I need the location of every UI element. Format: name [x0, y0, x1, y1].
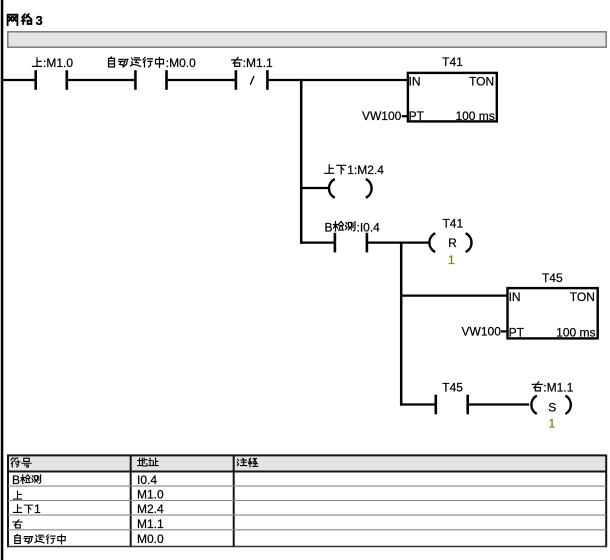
branch vertical wire from rung1 — [300, 79, 303, 244]
row5 自动运行中 — [15, 534, 65, 544]
svg-text:1: 1 — [549, 417, 556, 431]
NC contact 右:M1.1 — [236, 70, 268, 90]
svg-text:IN: IN — [509, 290, 521, 304]
left power rail — [1, 0, 4, 560]
svg-text:B: B — [12, 473, 20, 487]
symbol table outer border — [7, 455, 9, 548]
timer box T45 — [508, 288, 598, 338]
svg-text:PT: PT — [509, 325, 525, 339]
header 符号 — [11, 458, 31, 467]
svg-text:T45: T45 — [442, 380, 463, 394]
column divider 2 — [233, 455, 235, 546]
contact 上:M1.0 — [36, 70, 67, 90]
bottom branch wire — [400, 403, 435, 405]
column divider 1 — [130, 455, 132, 546]
wire to S coil — [468, 403, 529, 405]
set coil 右:M1.1 (S) — [531, 396, 570, 414]
svg-text:100 ms: 100 ms — [556, 325, 595, 339]
svg-text:VW100: VW100 — [462, 325, 502, 339]
svg-text:100 ms: 100 ms — [455, 109, 494, 123]
svg-text:1:M2.4: 1:M2.4 — [347, 163, 384, 177]
header bottom border — [8, 471, 606, 473]
svg-text:M2.4: M2.4 — [137, 502, 164, 516]
T41 PT stub wire — [402, 115, 409, 117]
contact B检测:I0.4 — [335, 233, 367, 253]
symbol table header background — [9, 456, 605, 471]
wire rung1 seg4 to T41 — [267, 79, 408, 81]
svg-text::M0.0: :M0.0 — [166, 56, 196, 70]
branch2 wire — [300, 242, 334, 244]
row3 上下1 — [13, 505, 32, 513]
S coil label 右:M1.1 — [532, 382, 542, 391]
svg-text:PT: PT — [409, 109, 425, 123]
svg-text::M1.1: :M1.1 — [243, 56, 273, 70]
svg-text:T41: T41 — [442, 217, 463, 231]
wire to coil 上下1 — [300, 187, 328, 189]
coil 上下1:M2.4 — [329, 179, 372, 198]
timer box T41 — [408, 73, 497, 122]
row2 上 — [13, 491, 21, 499]
vertical wire down from branch2 — [400, 242, 403, 406]
svg-text:M1.0: M1.0 — [137, 488, 164, 502]
wire to T45 IN — [400, 295, 509, 297]
svg-text:I0.4: I0.4 — [137, 473, 157, 487]
svg-text:VW100: VW100 — [362, 109, 402, 123]
contact T45 — [436, 395, 468, 415]
svg-text:S: S — [548, 400, 556, 414]
contact 自动运行中:M0.0 — [135, 70, 166, 90]
row separators — [8, 486, 606, 530]
label 右:M1.1 — [232, 57, 242, 66]
wire rung1 seg to first contact — [2, 79, 35, 81]
svg-text:1: 1 — [34, 502, 41, 516]
header 地址 — [138, 458, 159, 466]
svg-text::M1.0: :M1.0 — [43, 56, 73, 70]
row4 右 — [13, 520, 22, 528]
svg-text:M0.0: M0.0 — [137, 532, 164, 546]
label 自动运行中:M0.0 — [109, 57, 164, 68]
NC slash — [250, 76, 254, 85]
svg-text:3: 3 — [36, 13, 43, 28]
wire rung1 seg3 — [166, 79, 236, 81]
header 注释 — [237, 458, 258, 467]
network comment bar — [8, 32, 606, 47]
svg-text:IN: IN — [409, 74, 421, 88]
svg-text:TON: TON — [570, 290, 595, 304]
svg-text:R: R — [448, 236, 457, 250]
label 上:M1.0 — [33, 58, 42, 67]
T45 PT stub wire — [501, 330, 509, 332]
wire to R coil — [368, 242, 430, 244]
wire rung1 seg2 — [66, 79, 136, 81]
network title 网络 3 — [8, 14, 32, 25]
reset coil T41 (R) — [429, 233, 471, 252]
table bottom border — [7, 546, 607, 548]
label 上下1:M2.4 — [325, 165, 346, 174]
svg-text:TON: TON — [469, 74, 494, 88]
svg-text:M1.1: M1.1 — [137, 517, 164, 531]
svg-text::M1.1: :M1.1 — [543, 381, 573, 395]
svg-text:B: B — [325, 220, 333, 234]
svg-text:T45: T45 — [542, 271, 563, 285]
svg-text:1: 1 — [448, 253, 455, 267]
svg-text::I0.4: :I0.4 — [357, 220, 381, 234]
svg-text:T41: T41 — [442, 55, 463, 69]
